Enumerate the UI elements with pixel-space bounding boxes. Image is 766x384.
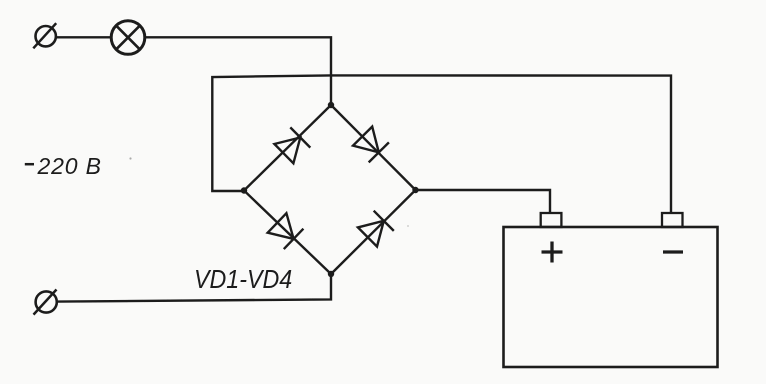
svg-text:220 В: 220 В	[37, 153, 102, 179]
svg-text:VD1-VD4: VD1-VD4	[194, 266, 292, 294]
